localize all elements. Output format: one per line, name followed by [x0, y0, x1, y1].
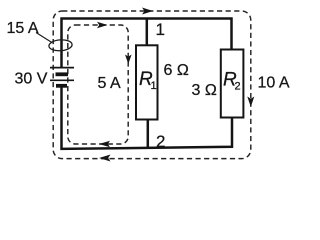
resistor R2 body: [221, 50, 244, 118]
pointer line from 15 A label to clamp ellipse: [36, 33, 52, 43]
wire: node 1 drop to R1 top: [146, 19, 149, 46]
arrow on inner loop bottom (pointing left): [99, 141, 110, 148]
svg-text:1: 1: [151, 80, 157, 92]
svg-text:5 A: 5 A: [98, 75, 121, 92]
svg-text:6 Ω: 6 Ω: [164, 62, 189, 79]
outer dashed current loop (total current path): [53, 11, 251, 159]
arrow on inner loop top (pointing right): [97, 22, 108, 29]
wire: battery bottom lead, bottom wire, R2 bottom lead: [62, 87, 233, 149]
svg-text:10 A: 10 A: [258, 75, 290, 92]
svg-text:2: 2: [235, 81, 241, 93]
battery 30 V: short thick plate: [56, 72, 69, 76]
arrow on outer loop bottom (pointing left): [99, 155, 111, 162]
svg-text:1: 1: [156, 20, 165, 39]
battery 30 V: short thick plate (bottom): [56, 84, 67, 88]
arrow on outer loop top (pointing right): [142, 8, 153, 15]
battery 30 V: long plate (top): [50, 67, 74, 69]
arrow on inner loop right side (pointing down): [125, 55, 132, 65]
svg-text:3 Ω: 3 Ω: [192, 82, 217, 99]
ammeter clamp ellipse around battery wire: [49, 39, 73, 51]
wire: battery top lead, top wire, R2 top lead: [62, 19, 232, 69]
wire: R1 bottom lead to node 2: [147, 119, 150, 149]
resistor R1 body: [136, 45, 158, 119]
svg-text:15 A: 15 A: [7, 20, 39, 37]
svg-text:30 V: 30 V: [15, 71, 48, 88]
battery 30 V: long plate (lower): [50, 79, 74, 81]
inner dashed current loop (left mesh, 5 A path): [68, 25, 128, 144]
arrow on outer loop right side (pointing down, near 10 A): [247, 97, 254, 108]
svg-text:2: 2: [156, 132, 165, 151]
